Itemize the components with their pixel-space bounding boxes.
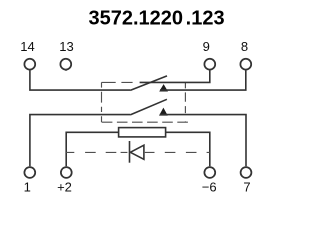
svg-text:14: 14 xyxy=(20,39,34,54)
svg-text:8: 8 xyxy=(241,39,248,54)
svg-text:13: 13 xyxy=(59,39,73,54)
diode V1 cathode bar xyxy=(129,141,131,163)
pin 7 terminal xyxy=(241,167,252,178)
dashed wire diode V1 to pin6 xyxy=(145,151,210,153)
pin 2 terminal xyxy=(61,167,72,178)
svg-text:−6: −6 xyxy=(202,180,217,195)
wire pin1 to contact K2 pivot xyxy=(30,115,130,167)
actuation arrow K1 xyxy=(160,85,167,91)
pin 14 terminal xyxy=(24,59,35,70)
wire pin8 to contact K1 xyxy=(160,70,246,90)
diode V1 triangle xyxy=(130,145,144,159)
relay outline dashed box right edge xyxy=(184,83,186,123)
wire pin2 to coil xyxy=(66,132,118,166)
pin 8 terminal xyxy=(240,59,251,70)
pin 1 terminal xyxy=(24,167,35,178)
relay outline dashed box left edge xyxy=(101,82,103,122)
dashed wire pin2 to diode V1 xyxy=(66,151,127,153)
svg-text:+2: +2 xyxy=(57,180,72,195)
relay outline dashed box top edge xyxy=(102,81,133,83)
svg-text:7: 7 xyxy=(243,180,250,195)
wire pin9 stationary contact K1 xyxy=(140,70,210,82)
wire pin14 to contact K1 pivot xyxy=(30,70,130,90)
svg-text:1: 1 xyxy=(24,180,31,195)
wire pin7 to contact K2 xyxy=(160,115,246,167)
pin 6 terminal xyxy=(204,167,215,178)
contact K2 movable blade xyxy=(130,99,167,115)
actuation arrow K2 xyxy=(160,109,167,116)
pin 13 stub xyxy=(65,70,67,71)
relay outline dashed box bottom edge xyxy=(102,121,188,123)
svg-text:9: 9 xyxy=(203,39,210,54)
wire coil to pin6 xyxy=(166,132,210,166)
pin 9 terminal xyxy=(204,59,215,70)
coil A1 xyxy=(119,128,166,137)
contact K1 movable blade xyxy=(130,76,167,91)
pin 13 terminal xyxy=(60,59,71,70)
svg-text:3572.1220.123: 3572.1220.123 xyxy=(89,7,225,29)
